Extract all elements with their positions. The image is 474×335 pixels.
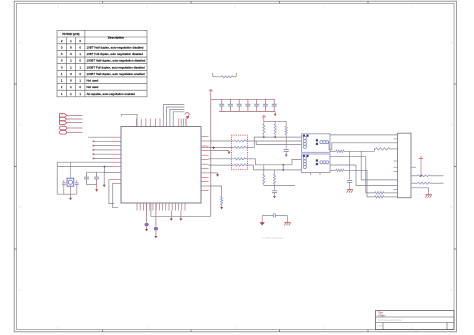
wire U1 pin down to ground arrow [104,173,112,185]
svg-text:10BT Full-duplex, auto negotia: 10BT Full-duplex, auto negotiation disab… [87,52,144,56]
wire top-left L to U1 [121,114,137,126]
connector J1 [398,133,412,198]
ground solid left [261,215,263,222]
ground arrow RX bias [273,196,276,198]
svg-text:PHYAD [2:0]: PHYAD [2:0] [62,32,79,36]
frame zone ticks left/right [14,84,456,249]
wire to termination R4 [209,158,234,160]
wire nested L3 from U1 top [170,109,185,126]
wire branch to J1 185 [356,165,398,186]
no-connect curl on U1 top pin [185,119,187,127]
svg-text:5: 5 [57,326,59,330]
ground arrow under crystal [70,194,72,198]
power arrow below L2 [154,236,157,238]
capacitor C5 decoupling [221,99,223,104]
capacitor C13 [274,185,276,189]
resistor R11 [274,170,276,174]
wire RD rail lower [255,159,292,165]
resistor R10 [263,165,265,174]
resistor R14 series [330,169,336,171]
svg-text:C GND CHASSIS: C GND CHASSIS [262,236,283,240]
wires U1 left pins to stubs [88,137,112,159]
capacitor C6 decoupling [229,99,231,104]
wire U1 bottom rail corner up [210,215,212,217]
title block [376,311,455,330]
wire to termination R2 [209,140,234,142]
power symbol J1 [419,157,423,159]
wire TX mid to T1 [245,140,301,142]
ferrite bead L1 chain [146,203,148,223]
svg-text:<Title>: <Title> [378,313,387,317]
capacitor C1 left of crystal [63,180,65,183]
wire to termination R5 [209,164,234,166]
connector J1 left stubs [394,139,398,190]
wire cap pair top rail [87,167,105,173]
crystal Y1 body [67,178,74,186]
junction dots RD [282,164,284,166]
junction crystal net [104,166,106,168]
crystal top pin to clock wire [69,162,71,178]
svg-text:2: 2 [323,5,325,9]
capacitor C2 right of crystal [76,180,78,183]
junction TX bias b [274,136,276,138]
wire nested L2 from U1 top [167,107,185,127]
power rail VDD vertical [210,91,212,217]
table text [61,32,146,96]
U1 left pins [112,137,121,184]
junction TX bias a [263,136,265,138]
capacitor C4 [96,172,98,177]
port MDIO [60,117,67,120]
capacitor C7 decoupling [238,99,240,104]
svg-text:Description: Description [108,36,124,40]
wire branch to J1 180 [361,151,397,180]
resistor R6 pulldown [209,186,222,196]
U1 top pins [137,119,187,127]
resistor R7 [263,121,265,124]
power arrow near U1 right pin [213,146,215,147]
wire branch resistor R16 [367,170,375,197]
power arrow U1 bottom a [170,211,172,219]
wire wrap2 from U1 left pin [112,184,118,208]
capacitor C11 decoupling [273,99,275,104]
svg-text:100BT Half-duplex, auto negoti: 100BT Half-duplex, auto negotiation enab… [87,72,145,76]
svg-text:All capable, auto-negotiation: All capable, auto-negotiation enabled [87,92,136,96]
transformer T1 [302,134,331,153]
svg-text:4: 4 [146,5,148,9]
resistor R8 [274,121,276,124]
capacitor C9 decoupling [256,99,258,104]
wire wrap1 from U1 left pin [109,180,114,204]
chassis ground J1 [425,194,431,196]
table PHYAD strap options grid [57,30,147,97]
resistor R9 [285,121,287,126]
ferrite bead L2 chain [155,203,157,227]
wire RX bias rail [264,184,295,186]
resistor R1 top [212,73,214,77]
resistor R2 in box [234,140,245,142]
chassis ground C14 [347,189,353,191]
svg-text:3: 3 [234,326,236,330]
wire nested L4 from U1 top [173,112,184,127]
U1 bottom pins [137,203,185,211]
power symbol bias [262,116,266,118]
wire to termination R3 [209,146,234,148]
wire nested L1 from U1 top [163,105,184,127]
capacitor C8 decoupling [247,99,249,104]
ground arrow cap pair [96,185,98,190]
resistor R12 series [330,150,336,152]
wire stub with power arrow [209,150,229,152]
svg-text:5: 5 [57,5,59,9]
svg-text:Date: Date [378,324,384,327]
svg-text:10BT Half duplex, auto-negotia: 10BT Half duplex, auto-negotiation disab… [87,45,144,49]
power arrow below L1 [145,229,148,231]
wire RD- to T2 [254,165,302,170]
svg-text:100BT Full duplex, auto-negoti: 100BT Full duplex, auto-negotiation disa… [87,65,145,69]
wire T1 out top to J1 [330,134,398,136]
port CLKIN [60,131,67,135]
capacitor C14 [347,180,352,182]
wire TX step from R3 [254,137,301,147]
svg-text:1: 1 [411,326,413,330]
wire U1 pin to arrow mid [209,172,218,174]
wire crystal left leg [57,162,77,194]
wire RD+ step to T2 [292,159,302,164]
svg-text:100BT Half-duplex, auto-negoti: 100BT Half-duplex, auto-negotiation disa… [87,59,146,63]
wire TX low to T1 [256,141,301,145]
junction J1 pullup [420,175,422,177]
capacitor C15 bridge [262,214,273,216]
resistor R5 in box [234,164,245,166]
J1 pin to chassis ground [411,188,428,195]
wire T2 out mid [330,164,356,166]
wire T2 out top [330,156,366,158]
svg-text:3: 3 [234,5,236,9]
resistor R4 in box [234,158,245,160]
capacitor C12 bias [284,149,289,151]
svg-text:Not used: Not used [87,85,99,89]
svg-text:Not used: Not used [87,79,99,83]
chassis ground right [286,215,288,222]
frame zone ticks top/bottom [103,1,368,332]
transformer T2 [302,154,331,173]
resistor R18 [411,182,418,184]
capacitor C10 decoupling [264,99,266,104]
J1 right pin stub [411,166,416,168]
wire U1 bottom rail to right [151,203,211,216]
wire decoupling top rail [211,98,275,100]
wire branch resistor R15 [366,157,375,193]
U1 right pins [201,137,209,191]
svg-text:Size Document Number: Size Document Number [378,319,403,322]
dashed box termination network [231,135,247,170]
wire crystal net 2 to U1 [57,166,112,168]
port nINT [60,121,67,124]
svg-text:1: 1 [411,5,413,9]
svg-text:4: 4 [146,326,148,330]
power symbol VDD [209,90,213,92]
wire bias rail [264,120,286,122]
svg-text:2: 2 [323,326,325,330]
resistor R3 in box [234,146,245,148]
ground arrow decoupling row [274,111,276,113]
crystal bottom pin [69,186,71,194]
T2 bottom stubs [309,173,311,175]
port nRST [60,126,67,130]
resistor R17 [411,175,418,177]
wire T1 out mid to J1 [330,143,398,150]
op IC U1 PHY body [121,127,201,204]
vertical cap branch [349,151,351,179]
wire crystal net to U1 [57,161,112,163]
resistor R13 series [374,149,375,151]
ground arrow bias [285,155,288,157]
port MDC [60,114,67,117]
capacitor C3 [86,172,88,177]
wire decoupling bottom rail [219,110,275,112]
power arrow U1 bottom b [180,211,182,219]
ground arrow below U1 left [103,185,106,187]
wire cap pair bottom rail [87,184,97,186]
